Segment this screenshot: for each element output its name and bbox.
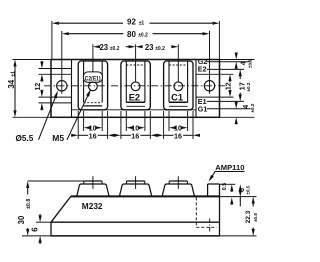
dim 22.3±0.8 line and arrows xyxy=(252,204,254,207)
terminal block 2 outline xyxy=(121,61,150,110)
svg-text:6: 6 xyxy=(30,227,39,232)
side view screw head 2 xyxy=(127,180,145,182)
small dim arrow below xyxy=(41,109,43,112)
terminal 3 slot sides xyxy=(168,62,170,103)
svg-text:±0.2: ±0.2 xyxy=(110,46,120,52)
svg-text:30: 30 xyxy=(17,215,26,224)
small dim arrow above xyxy=(41,60,43,63)
svg-text:12: 12 xyxy=(35,83,42,91)
dim 6 arrows xyxy=(39,214,41,215)
svg-text:34: 34 xyxy=(7,79,16,88)
dim 4±0.2 top arrows xyxy=(235,52,237,54)
diameter 5.5 leader xyxy=(39,98,56,140)
terminal block 1 outline xyxy=(78,61,107,110)
G2 leader line xyxy=(207,61,251,63)
svg-text:±0.2: ±0.2 xyxy=(250,103,255,112)
svg-text:23: 23 xyxy=(99,43,108,52)
terminal block 3 outline xyxy=(164,61,193,110)
svg-text:E2: E2 xyxy=(198,65,207,74)
right dim extension top edge xyxy=(220,59,255,61)
svg-text:±0.2: ±0.2 xyxy=(247,59,252,68)
terminal 2 block extension lines xyxy=(120,111,122,139)
side view terminal 3 centerline tick xyxy=(177,176,179,189)
side view terminal 2 centerline tick xyxy=(135,176,137,189)
svg-text:M5: M5 xyxy=(52,133,64,143)
hidden mounting hole centerline xyxy=(209,219,211,234)
terminal 1 slot extension lines xyxy=(83,111,85,131)
dim 10 terminal 3 xyxy=(175,127,177,129)
side view baseplate bottom xyxy=(51,235,220,237)
dim 10 terminal 2 xyxy=(132,127,134,129)
G1 leader line xyxy=(207,108,251,110)
dim 12 right arrows xyxy=(229,80,231,83)
svg-text:17: 17 xyxy=(237,82,246,90)
dim 34±1 extension lines xyxy=(13,59,52,61)
terminal 1 slot bottom edge xyxy=(84,102,103,104)
dim 34±1 line and arrows xyxy=(14,67,16,81)
terminal 3 slot bottom edge xyxy=(169,101,188,103)
svg-text:±0.5: ±0.5 xyxy=(246,185,251,194)
right dim extension bottom edge xyxy=(220,116,255,118)
terminal 1 centerline extension xyxy=(92,44,94,72)
dim 4±0.2 bottom arrows xyxy=(235,101,237,103)
dim 92±1 line and arrows xyxy=(59,22,123,24)
dim 12 left arrows xyxy=(41,80,43,83)
terminal 3 M5 screw hole xyxy=(174,82,183,91)
right control-terminal section divider xyxy=(195,60,197,118)
terminal 2 slot sides xyxy=(125,62,127,103)
side view terminal bump 2 xyxy=(119,184,151,196)
terminal 1 M5 screw hole xyxy=(89,82,98,91)
right extension lines side view xyxy=(220,183,236,185)
svg-text:12: 12 xyxy=(225,82,232,90)
dim 80±0.2 line and arrows xyxy=(69,33,124,35)
svg-text:E2: E2 xyxy=(129,93,140,103)
module body outline (top view) xyxy=(51,60,220,118)
svg-text:80: 80 xyxy=(127,30,136,39)
terminal 1 slot sides xyxy=(83,62,85,103)
terminal 3 slot hidden top edge xyxy=(169,64,188,66)
side view AMP110 connector block xyxy=(207,184,209,196)
mounting hole left centerline xyxy=(61,31,63,94)
dim 23±0.2 (2) arrows xyxy=(142,46,144,48)
svg-text:C2(E1): C2(E1) xyxy=(85,75,101,82)
terminal 2 slot bottom edge xyxy=(126,101,145,103)
svg-text:±1: ±1 xyxy=(139,20,145,26)
terminal 2 slot extension lines xyxy=(125,111,127,131)
baseplate top extension left xyxy=(36,221,51,223)
horizontal centerline xyxy=(44,85,227,87)
side view terminal bump 3 xyxy=(162,184,194,196)
left end divider wall xyxy=(71,60,73,118)
terminal 3 centerline extension xyxy=(177,44,179,82)
AMP110 underline xyxy=(215,171,245,173)
terminal 2 centerline extension xyxy=(135,44,137,82)
dim 30±0.8 extension top xyxy=(28,180,84,182)
side view baseplate left edge xyxy=(50,222,52,236)
svg-text:±0.8: ±0.8 xyxy=(26,199,32,209)
side view terminal bump 1 xyxy=(77,184,109,196)
terminal 3 block extension lines xyxy=(163,111,165,139)
svg-text:92: 92 xyxy=(127,18,136,27)
terminal 2 slot hidden top edge xyxy=(126,64,145,66)
dim 17±0.2 right arrows xyxy=(239,76,241,79)
right section step lines xyxy=(196,73,234,75)
svg-text:±0.2: ±0.2 xyxy=(155,46,165,52)
dim 6±0.5 arrows xyxy=(239,190,241,192)
terminal 3 slot extension lines xyxy=(168,111,170,131)
side view terminal 1 centerline tick xyxy=(92,176,94,189)
hidden connector slot lines xyxy=(195,197,197,227)
dim 23±0.2 (1) arrows xyxy=(98,46,100,48)
svg-text:16: 16 xyxy=(174,131,182,140)
side view chamfered left edge xyxy=(51,196,71,222)
svg-text:23: 23 xyxy=(145,43,154,52)
dim 92±1 extension lines xyxy=(51,21,53,59)
svg-text:±0.2: ±0.2 xyxy=(246,82,251,91)
svg-text:0.5: 0.5 xyxy=(222,183,228,191)
mounting hole left circle xyxy=(57,81,67,91)
AMP110 leader xyxy=(212,172,215,176)
svg-text:G1: G1 xyxy=(198,104,208,113)
svg-text:M232: M232 xyxy=(82,201,103,211)
mid step line between terminal blocks xyxy=(72,109,197,111)
svg-text:16: 16 xyxy=(131,131,139,140)
dim 16 terminal 3 xyxy=(156,134,159,136)
E2 leader line xyxy=(207,68,244,70)
svg-text:±0.2: ±0.2 xyxy=(138,32,148,38)
svg-text:AMP110: AMP110 xyxy=(215,163,244,172)
terminal 1 label plate C2(E1) xyxy=(83,72,102,82)
svg-text:C1: C1 xyxy=(171,93,183,103)
dim 30±0.8 line and arrows xyxy=(27,188,29,195)
mounting hole right circle xyxy=(204,81,214,91)
svg-text:16: 16 xyxy=(89,131,97,140)
terminal 1 block extension lines xyxy=(77,111,79,139)
mounting hole right centerline xyxy=(209,31,211,94)
side view right face xyxy=(219,184,221,236)
left end step lines xyxy=(39,68,72,70)
side view screw head 3 xyxy=(169,180,187,182)
E1 leader line xyxy=(207,100,244,102)
dim 10 terminal 1 xyxy=(89,127,91,129)
dim 16 terminal 2 xyxy=(113,134,116,136)
svg-text:22.3: 22.3 xyxy=(245,210,252,223)
terminal 2 M5 screw hole xyxy=(131,82,140,91)
side view screw head 1 xyxy=(84,180,102,182)
baseplate bottom extension left xyxy=(22,235,51,237)
svg-text:±1: ±1 xyxy=(11,71,17,77)
svg-text:±0.8: ±0.8 xyxy=(253,213,258,222)
dim 16 terminal 1 xyxy=(70,134,73,136)
dim 0.5 arrows xyxy=(231,190,233,193)
M5 leader xyxy=(67,96,88,140)
svg-text:Ø5.5: Ø5.5 xyxy=(16,134,34,143)
side view top surface xyxy=(71,195,220,197)
side view baseplate top xyxy=(51,221,220,223)
